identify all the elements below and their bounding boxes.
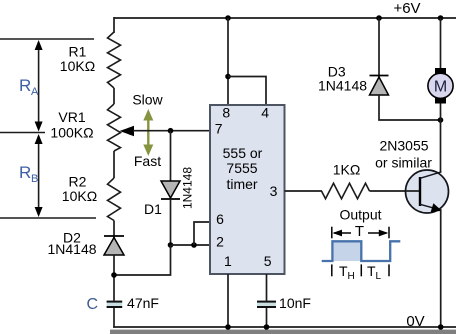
label TH — [339, 263, 355, 282]
wire pin 3 output — [285, 190, 323, 192]
label C — [87, 296, 99, 313]
wire pin 4 branch — [228, 77, 266, 106]
svg-text:3: 3 — [270, 183, 278, 199]
svg-text:1KΩ: 1KΩ — [333, 162, 361, 178]
label R1 10KOhm — [60, 44, 95, 75]
svg-text:10KΩ: 10KΩ — [60, 58, 95, 74]
svg-text:T: T — [355, 223, 364, 240]
label 10nF — [279, 295, 311, 311]
label RA — [19, 76, 39, 98]
svg-text:7: 7 — [215, 121, 223, 137]
wire pin 5 to cap — [266, 274, 268, 301]
wire wiper to pin 7 — [133, 130, 210, 132]
label 1N4148 vertical — [181, 167, 195, 209]
svg-text:D1: D1 — [144, 201, 162, 217]
svg-text:Output: Output — [339, 207, 381, 223]
svg-text:C: C — [87, 296, 99, 313]
diode D2 — [104, 236, 124, 255]
svg-text:6: 6 — [216, 211, 224, 227]
svg-text:timer: timer — [226, 176, 257, 192]
wire +6V top rail — [114, 17, 456, 19]
pin 4 label — [261, 105, 269, 121]
pin 2 label — [216, 234, 224, 250]
svg-text:10KΩ: 10KΩ — [62, 188, 97, 204]
svg-text:+6V: +6V — [393, 0, 420, 17]
svg-text:555 or: 555 or — [223, 145, 263, 161]
label 2N3055 or similar — [375, 138, 432, 171]
pin 8 label — [222, 105, 230, 121]
svg-text:47nF: 47nF — [127, 295, 159, 311]
resistor R2 — [108, 178, 121, 221]
svg-text:R: R — [19, 163, 31, 182]
svg-text:1N4148: 1N4148 — [181, 167, 195, 209]
op-amp U1 555 timer box — [210, 105, 285, 274]
diode D3 — [370, 76, 389, 96]
svg-text:or similar: or similar — [375, 155, 432, 171]
capacitor 10nF — [257, 301, 276, 308]
wire left chain top — [113, 17, 115, 33]
wire pin 2 — [171, 244, 211, 246]
potentiometer VR1 — [108, 104, 121, 151]
wire R1 to VR1 — [113, 88, 115, 104]
label RB — [19, 163, 38, 185]
node D3 rail junction — [376, 15, 382, 21]
wire D3 to motor bottom — [379, 95, 441, 120]
label TL — [367, 263, 382, 282]
ground bus bar — [110, 330, 456, 334]
svg-text:1N4148: 1N4148 — [47, 241, 96, 257]
label D2 1N4148 — [47, 230, 96, 258]
wire rail to motor — [440, 18, 442, 68]
wire pin 1 to 0V — [227, 274, 229, 327]
diode D1 — [161, 181, 180, 199]
svg-text:4: 4 — [261, 105, 269, 121]
pin 7 label — [215, 121, 223, 137]
node emitter 0V junction — [438, 324, 444, 330]
wire C to 0V — [113, 308, 115, 328]
node C top junction — [111, 272, 117, 278]
wire pin 6 branch — [194, 222, 210, 245]
label Output — [339, 207, 381, 223]
capacitor C 47nF — [107, 301, 123, 308]
svg-text:0V: 0V — [406, 313, 424, 330]
wire VR1 to R2 — [113, 151, 115, 178]
svg-text:5: 5 — [264, 253, 272, 269]
svg-text:B: B — [31, 173, 38, 185]
label D3 1N4148 — [318, 64, 367, 94]
label 1KOhm — [333, 162, 361, 178]
svg-text:8: 8 — [222, 105, 230, 121]
wire junction to D1 — [170, 131, 172, 182]
waveform bottom ticks — [332, 264, 389, 276]
label 0V — [406, 313, 424, 330]
label 47nF — [127, 295, 159, 311]
pin 1 label — [224, 253, 232, 269]
svg-text:H: H — [348, 271, 355, 282]
svg-text:1: 1 — [224, 253, 232, 269]
node motor rail junction — [438, 15, 444, 21]
speed direction arrow — [143, 109, 153, 156]
measurement line RA top — [0, 38, 94, 40]
resistor R1 — [108, 32, 121, 88]
wire D2 to node — [113, 255, 115, 301]
label Fast — [134, 153, 161, 169]
node pin6 branch junction — [191, 242, 197, 248]
svg-text:A: A — [31, 86, 39, 98]
motor M1 — [428, 68, 453, 104]
label VR1 100KOhm — [50, 109, 93, 141]
dimension arrow T — [333, 223, 389, 240]
measurement line RB bottom — [0, 217, 96, 219]
wire 0V rail — [113, 326, 456, 328]
svg-text:7555: 7555 — [226, 160, 257, 176]
pin 5 label — [264, 253, 272, 269]
label D1 — [144, 201, 162, 217]
waveform trace — [322, 241, 401, 261]
label R2 10KOhm — [62, 174, 97, 205]
wire R2 to D2 — [113, 221, 115, 239]
node pin 8 rail junction — [225, 15, 231, 21]
node pin1 0V junction — [225, 324, 231, 330]
dimension arrow RB — [35, 134, 43, 217]
label 555 or 7555 timer — [223, 145, 263, 192]
node pin 4 branch junction — [225, 74, 231, 80]
wire pin 8 — [227, 18, 229, 105]
label +6V — [393, 0, 420, 17]
wire 1K to base — [370, 190, 420, 192]
svg-text:R: R — [19, 76, 31, 95]
transistor Q1 2N3055 — [406, 170, 449, 213]
pin 6 label — [216, 211, 224, 227]
node pin5 0V junction — [264, 324, 270, 330]
wire motor to collector — [440, 104, 442, 173]
node motor bottom junction — [438, 117, 444, 123]
svg-text:M: M — [434, 79, 447, 96]
node D1/pin2 junction — [168, 242, 174, 248]
svg-text:10nF: 10nF — [279, 295, 311, 311]
dimension arrow RA — [35, 40, 43, 132]
svg-text:1N4148: 1N4148 — [318, 78, 367, 94]
label Slow — [132, 92, 163, 108]
pin 3 label — [270, 183, 278, 199]
wire trigger node down-leg — [114, 245, 171, 275]
svg-text:VR1: VR1 — [58, 109, 85, 125]
svg-text:Slow: Slow — [132, 92, 163, 108]
wire 10nF to 0V — [266, 308, 268, 327]
svg-text:2N3055: 2N3055 — [379, 138, 428, 154]
wire emitter to 0V — [440, 209, 442, 327]
measurement line RA/RB middle — [0, 132, 45, 134]
wire D1 to pin2 node — [170, 199, 172, 245]
waveform pulse fill — [332, 241, 361, 261]
svg-text:L: L — [376, 271, 382, 282]
svg-text:Fast: Fast — [134, 153, 161, 169]
node wiper/D1 junction — [168, 128, 174, 134]
svg-text:2: 2 — [216, 234, 224, 250]
potentiometer VR1 wiper arrow — [120, 126, 135, 136]
wire rail to D3 — [378, 18, 380, 77]
svg-text:100KΩ: 100KΩ — [50, 125, 93, 141]
waveform period ticks — [332, 227, 389, 239]
resistor 1K — [322, 183, 370, 199]
